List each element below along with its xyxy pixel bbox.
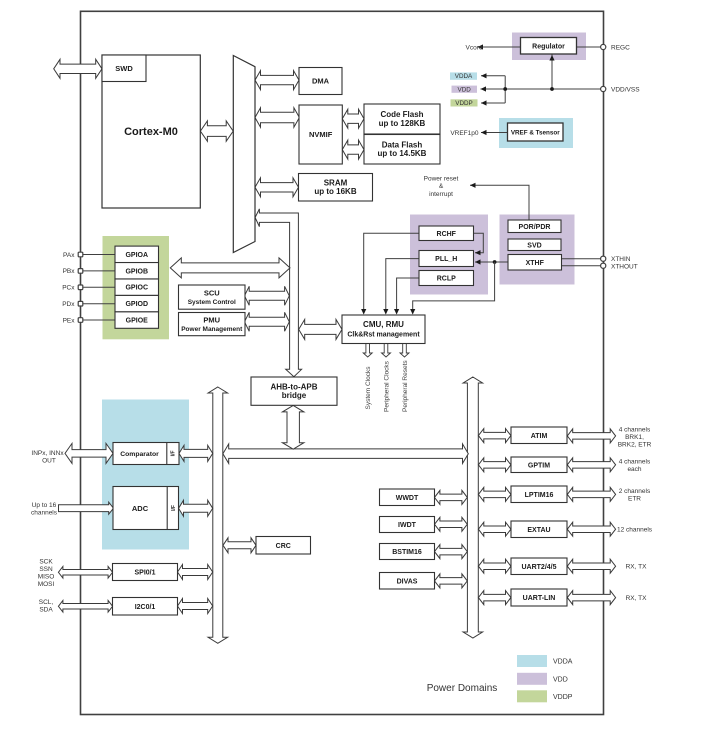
wire VDD/VSS rail	[481, 88, 601, 90]
wire RCHF to CMU	[364, 233, 419, 313]
label UART-LIN pins	[626, 595, 647, 602]
svg-text:PLL_H: PLL_H	[435, 256, 457, 263]
junction VDD rail / Regulator branch	[550, 87, 554, 91]
svg-text:PAx: PAx	[63, 252, 75, 259]
svg-text:VDD/VSS: VDD/VSS	[611, 86, 640, 93]
wire PEx pin to GPIOE	[83, 319, 115, 321]
label VREF1p0	[450, 130, 479, 137]
bus NVMIF to Code Flash	[342, 109, 364, 128]
svg-text:LPTIM16: LPTIM16	[525, 492, 554, 499]
wire Regulator to Vcore	[478, 46, 521, 48]
VREF power-domain container (VDDA cyan)	[499, 118, 573, 148]
arrowhead Vcore	[478, 44, 484, 49]
APB bus horizontal	[223, 444, 468, 464]
svg-text:VREF & Tsensor: VREF & Tsensor	[511, 129, 560, 136]
block UART2/4/5	[511, 558, 567, 575]
label Cortex-M0	[124, 126, 178, 138]
svg-text:PBx: PBx	[63, 268, 76, 275]
svg-text:PCx: PCx	[62, 285, 75, 292]
label REGC	[611, 44, 630, 51]
legend label VDD	[553, 676, 568, 683]
svg-text:SVD: SVD	[527, 242, 541, 249]
wire to VDDA tag	[481, 75, 505, 77]
legend swatch VDDA	[517, 655, 547, 667]
svg-text:UART2/4/5: UART2/4/5	[521, 564, 556, 571]
bus SWD debug port	[54, 59, 102, 78]
label PBx	[63, 268, 76, 275]
arrow CMU Peripheral Resets output	[400, 344, 409, 357]
svg-text:I/F: I/F	[171, 450, 177, 456]
svg-text:up to 16KB: up to 16KB	[314, 187, 356, 196]
block POR/PDR	[508, 220, 561, 233]
svg-text:Comparator: Comparator	[120, 451, 159, 458]
svg-text:&: &	[439, 183, 444, 190]
wire PDx pin to GPIOD	[83, 303, 115, 305]
svg-text:Up to 16: Up to 16	[32, 502, 57, 509]
signal LPTIM16 external pins	[567, 487, 615, 501]
wire POR/PDR to power-reset-interrupt	[470, 185, 529, 220]
bus APB to GPTIM	[478, 458, 511, 472]
label PCx	[62, 285, 75, 292]
wire RCHF to PLL_H	[474, 233, 484, 252]
svg-text:GPIOD: GPIOD	[125, 301, 148, 308]
block NVMIF	[299, 105, 342, 164]
wire PBx pin to GPIOB	[83, 270, 115, 272]
svg-text:Cortex-M0: Cortex-M0	[124, 126, 178, 138]
bus ADC to APB	[179, 500, 213, 516]
signal SPI pins	[58, 567, 112, 579]
svg-text:VDDA: VDDA	[553, 659, 573, 666]
signal ATIM external pins	[567, 429, 615, 443]
svg-text:SCL,: SCL,	[39, 599, 54, 606]
wire PAx pin to GPIOA	[83, 254, 115, 256]
svg-text:UART-LIN: UART-LIN	[523, 595, 556, 602]
arrowhead VDD	[481, 86, 487, 91]
signal GPTIM external pins	[567, 458, 615, 472]
label System Clocks (rotated)	[365, 366, 372, 410]
block SCU	[179, 285, 246, 309]
wire PLL_H to CMU	[386, 259, 419, 314]
svg-text:VDDA: VDDA	[455, 73, 473, 80]
svg-text:Power Domains: Power Domains	[427, 683, 498, 694]
APB bus left (vertical)	[208, 387, 228, 643]
block PMU	[179, 313, 246, 336]
tag VDD	[452, 86, 478, 94]
svg-text:RX, TX: RX, TX	[626, 595, 647, 602]
block SPI0/1	[113, 564, 178, 581]
svg-text:interrupt: interrupt	[429, 191, 453, 198]
signal UART-LIN external pins	[567, 591, 615, 605]
block Regulator	[521, 38, 577, 55]
block ADC	[113, 487, 179, 530]
label XTHOUT	[611, 264, 638, 271]
bus IWDT to APB	[435, 517, 468, 531]
wire RCLP to CMU	[397, 278, 419, 314]
pin XTHOUT	[601, 263, 606, 268]
arrow CMU System Clocks output	[363, 344, 372, 357]
arrowhead into Regulator	[549, 55, 554, 61]
pin VDD/VSS	[601, 86, 606, 91]
arrowhead into PLL_H top	[475, 250, 481, 255]
svg-text:ATIM: ATIM	[531, 433, 548, 440]
svg-text:GPIOC: GPIOC	[125, 285, 148, 292]
svg-text:CRC: CRC	[276, 543, 291, 550]
svg-text:RCLP: RCLP	[437, 276, 456, 283]
arrowhead VDDP	[481, 100, 487, 105]
wire PCx pin to GPIOC	[83, 286, 115, 288]
POR/SVD/XTHF power-domain container (VDD purple)	[500, 215, 575, 285]
legend swatch VDD	[517, 673, 547, 685]
block LPTIM16	[511, 486, 567, 503]
AHB elbow bus: AHB matrix to bridge	[255, 209, 302, 377]
bus Cortex-M0 to AHB matrix	[200, 121, 233, 141]
block PLL_H	[419, 251, 474, 267]
arrowhead PLL clock into CMU	[383, 309, 388, 315]
svg-text:I2C0/1: I2C0/1	[135, 604, 156, 611]
svg-text:XTHOUT: XTHOUT	[611, 264, 638, 271]
svg-text:IWDT: IWDT	[398, 522, 417, 529]
svg-text:VDD: VDD	[458, 86, 472, 93]
svg-text:Peripheral Resets: Peripheral Resets	[402, 360, 409, 412]
svg-text:BRK2, ETR: BRK2, ETR	[618, 442, 652, 449]
svg-text:PDx: PDx	[62, 301, 75, 308]
pin PDx	[78, 301, 83, 306]
legend swatch VDDP	[517, 690, 547, 702]
svg-text:BRK1,: BRK1,	[625, 434, 644, 441]
wire XTHF to XTHOUT pin	[562, 265, 601, 267]
bus NVMIF to Data Flash	[342, 140, 364, 159]
svg-text:NVMIF: NVMIF	[309, 130, 333, 139]
block Code Flash	[364, 104, 440, 134]
block SVD	[508, 239, 561, 251]
bus APB to EXTAU	[478, 522, 511, 536]
chip outer boundary	[81, 11, 604, 714]
svg-text:bridge: bridge	[282, 391, 307, 400]
svg-text:SSN: SSN	[39, 566, 53, 573]
svg-text:ETR: ETR	[628, 496, 641, 503]
svg-text:I/F: I/F	[171, 505, 177, 511]
svg-text:SCK: SCK	[39, 558, 53, 565]
svg-text:DIVAS: DIVAS	[397, 578, 418, 585]
svg-text:RCHF: RCHF	[437, 231, 457, 238]
arrow CMU Peripheral Clocks output	[382, 344, 391, 357]
svg-text:BSTIM16: BSTIM16	[392, 549, 422, 556]
label SPI pins SCK SSN MISO MOSI	[38, 558, 55, 588]
svg-text:Clk&Rst management: Clk&Rst management	[347, 331, 420, 338]
block SWD	[102, 55, 146, 82]
label Vcore	[466, 44, 483, 51]
svg-text:POR/PDR: POR/PDR	[519, 224, 551, 231]
block CRC	[256, 537, 311, 555]
legend label VDDP	[553, 694, 573, 701]
bus APB to CRC	[223, 538, 256, 553]
block Cortex-M0	[102, 55, 200, 208]
wire to VDDP tag	[481, 102, 505, 104]
block BSTIM16	[380, 544, 435, 560]
block AHB bus matrix (trapezoid)	[233, 56, 255, 253]
svg-text:WWDT: WWDT	[396, 495, 419, 502]
pin XTHIN	[601, 256, 606, 261]
label LPTIM16 channels	[619, 488, 651, 503]
pin PCx	[78, 285, 83, 290]
block WWDT	[380, 489, 435, 506]
GPIO power-domain container (VDDP green)	[103, 236, 170, 339]
svg-text:XTHF: XTHF	[526, 260, 545, 267]
wire VDD rail to Regulator	[551, 55, 553, 90]
label Up to 16 channels	[31, 502, 58, 517]
block DIVAS	[380, 573, 435, 590]
bus BSTIM16 to APB	[435, 545, 468, 559]
wire Regulator to REGC pin	[577, 46, 601, 48]
block GPIOE	[115, 312, 159, 328]
block SRAM	[299, 174, 373, 202]
svg-text:up to 128KB: up to 128KB	[379, 119, 426, 128]
svg-text:REGC: REGC	[611, 44, 630, 51]
pin REGC	[601, 44, 606, 49]
wire XTHF clock to CMU	[413, 262, 495, 314]
bus APB to ATIM	[478, 429, 511, 443]
svg-text:SCU: SCU	[204, 288, 220, 297]
svg-text:GPIOE: GPIOE	[126, 318, 149, 325]
svg-text:12 channels: 12 channels	[617, 527, 653, 534]
label VDD/VSS	[611, 86, 640, 93]
svg-text:INPx, INNx: INPx, INNx	[31, 450, 64, 457]
bus AHB matrix to NVMIF	[255, 108, 299, 127]
svg-text:4 channels: 4 channels	[619, 427, 651, 434]
bus APB to UART2/4/5	[478, 559, 511, 573]
junction VDD rail / VDDA branch	[503, 87, 507, 91]
block GPTIM	[511, 457, 567, 473]
APB bus right (vertical)	[463, 377, 483, 638]
analog power-domain container (VDDA cyan)	[102, 400, 189, 550]
block ATIM	[511, 427, 567, 444]
svg-text:CMU, RMU: CMU, RMU	[363, 320, 404, 329]
svg-text:GPIOA: GPIOA	[125, 252, 148, 259]
svg-text:SWD: SWD	[115, 64, 133, 73]
bus I2C0/1 to APB	[178, 599, 213, 614]
bus SCU to AHB	[245, 286, 290, 305]
svg-text:2 channels: 2 channels	[619, 488, 651, 495]
svg-text:OUT: OUT	[42, 458, 56, 465]
label Power Domains	[427, 683, 498, 694]
signal INPx/INNx/OUT to Comparator	[65, 443, 113, 463]
block AHB-to-APB bridge	[251, 377, 337, 405]
bus GPIO to AHB matrix	[170, 258, 290, 278]
label EXTAU channels	[617, 527, 653, 534]
svg-text:Vcore: Vcore	[466, 44, 483, 51]
arrowhead power reset	[470, 183, 476, 188]
bus Comparator to APB	[179, 445, 213, 461]
svg-text:Power Management: Power Management	[181, 326, 243, 333]
block UART-LIN	[511, 589, 567, 606]
tag VDDA	[450, 72, 477, 80]
block EXTAU	[511, 521, 567, 538]
svg-text:up to 14.5KB: up to 14.5KB	[378, 149, 427, 158]
arrowhead XTHF clock into CMU	[410, 309, 415, 315]
bus AHB bridge to APB bus	[282, 405, 304, 449]
block GPIOB	[115, 263, 159, 279]
wire XTHF to XTHIN pin	[562, 258, 601, 260]
block Data Flash	[364, 135, 440, 165]
svg-text:channels: channels	[31, 510, 58, 517]
svg-text:GPIOB: GPIOB	[125, 268, 148, 275]
bus AHB matrix to SRAM	[255, 178, 299, 197]
wire VDDA-VDDP branch vertical	[504, 76, 506, 103]
svg-text:Power reset: Power reset	[424, 176, 459, 183]
bus WWDT to APB	[435, 490, 468, 504]
label PAx	[63, 252, 75, 259]
junction XTHF line / CMU branch	[493, 260, 497, 264]
block VREF & Tsensor	[508, 123, 564, 141]
svg-text:ADC: ADC	[132, 504, 149, 513]
block IWDT	[380, 517, 435, 533]
RCHF/PLL/RCLP power-domain container (VDD purple)	[410, 215, 488, 295]
label ATIM channels	[618, 427, 652, 449]
signal EXTAU external pins	[567, 522, 615, 536]
svg-text:MOSI: MOSI	[38, 581, 55, 588]
label I2C pins SCL SDA	[39, 599, 54, 614]
wire VREF to VREF1p0	[481, 132, 508, 134]
block GPIOC	[115, 279, 159, 295]
svg-text:XTHIN: XTHIN	[611, 256, 631, 263]
arrowhead RCLP clock into CMU	[394, 309, 399, 315]
svg-text:System Clocks: System Clocks	[365, 366, 372, 410]
signal UART2/4/5 external pins	[567, 559, 615, 573]
pin PEx	[78, 318, 83, 323]
svg-text:MISO: MISO	[38, 573, 55, 580]
svg-text:4 channels: 4 channels	[619, 459, 651, 466]
wire XTHF to PLL_H	[475, 261, 508, 263]
signal ADC input channels	[59, 502, 114, 514]
block I2C0/1	[113, 598, 178, 616]
label PDx	[62, 301, 75, 308]
signal I2C pins	[58, 601, 112, 613]
block RCHF	[419, 226, 474, 241]
label Power reset & interrupt	[424, 176, 459, 198]
block CMU RMU	[342, 315, 425, 344]
svg-text:Regulator: Regulator	[532, 43, 565, 50]
arrowhead VDDA	[481, 73, 487, 78]
svg-text:VREF1p0: VREF1p0	[450, 130, 479, 137]
svg-text:GPTIM: GPTIM	[528, 462, 550, 469]
label GPTIM channels	[619, 459, 651, 474]
svg-text:VDDP: VDDP	[455, 100, 473, 107]
label PEx	[63, 317, 76, 324]
pin PBx	[78, 269, 83, 274]
legend label VDDA	[553, 659, 573, 666]
svg-text:DMA: DMA	[312, 77, 330, 86]
label INPx INNx OUT	[31, 450, 64, 465]
arrowhead RCHF clock into CMU	[361, 309, 366, 315]
tag VDDP	[451, 99, 478, 107]
block XTHF	[508, 255, 562, 271]
svg-text:SDA: SDA	[39, 607, 53, 614]
block Comparator	[113, 443, 179, 465]
arrowhead VREF1p0	[481, 130, 487, 135]
bus PMU to AHB	[245, 312, 290, 331]
arrowhead into PLL_H	[475, 259, 481, 264]
block DMA	[299, 68, 342, 95]
label UART2/4/5 pins	[626, 564, 647, 571]
bus DIVAS to APB	[435, 574, 468, 588]
bus APB to UART-LIN	[478, 591, 511, 605]
label Peripheral Resets (rotated)	[402, 360, 409, 412]
label Peripheral Clocks (rotated)	[383, 360, 390, 412]
svg-text:VDDP: VDDP	[553, 694, 573, 701]
svg-text:PMU: PMU	[203, 315, 220, 324]
bus APB to LPTIM16	[478, 487, 511, 501]
svg-text:Peripheral Clocks: Peripheral Clocks	[383, 360, 390, 412]
label XTHIN	[611, 256, 631, 263]
bus AHB to CMU RMU	[299, 319, 342, 339]
bus AHB matrix to DMA	[255, 71, 299, 90]
Regulator power-domain container (VDD purple)	[512, 33, 586, 61]
block GPIOD	[115, 295, 159, 311]
svg-text:each: each	[627, 466, 641, 473]
svg-text:EXTAU: EXTAU	[527, 527, 550, 534]
block RCLP	[419, 271, 474, 286]
bus SPI0/1 to APB	[178, 565, 213, 580]
svg-text:SPI0/1: SPI0/1	[134, 570, 155, 577]
block GPIOA	[115, 246, 159, 262]
svg-text:RX, TX: RX, TX	[626, 564, 647, 571]
svg-text:System Control: System Control	[188, 299, 236, 306]
svg-text:VDD: VDD	[553, 676, 568, 683]
svg-text:PEx: PEx	[63, 317, 76, 324]
pin PAx	[78, 252, 83, 257]
